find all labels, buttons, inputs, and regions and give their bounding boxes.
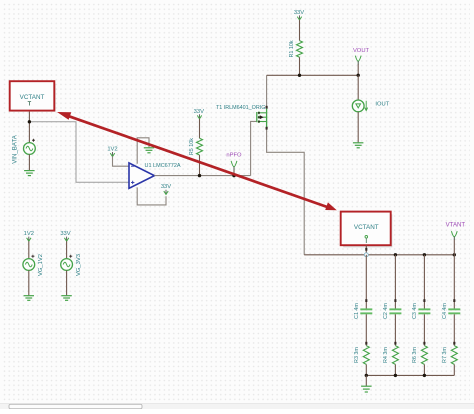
node junction VOUT — [357, 74, 360, 77]
wire VCTANT box pin to bus — [365, 245, 367, 255]
label 33V tag above R1 — [294, 10, 304, 20]
red highlight box around node VCTANT (top left) — [10, 81, 55, 111]
node junction bottom bus 2 — [394, 374, 397, 377]
svg-text:VCTANT: VCTANT — [20, 94, 45, 101]
svg-text:33V: 33V — [194, 109, 204, 115]
node pin VOUT — [355, 56, 361, 76]
wire R5 to output rail — [199, 155, 201, 176]
node junction bus branch 3 — [423, 253, 426, 256]
svg-text:33V: 33V — [294, 10, 304, 16]
wire branch 3 lower — [423, 364, 425, 375]
ground below VIN_BATA — [24, 171, 34, 176]
node junction at VCTANT — [28, 120, 31, 123]
resistor R5 — [197, 138, 203, 155]
node junction bus branch 2 — [394, 253, 397, 256]
capacitor C3 — [418, 308, 430, 314]
svg-text:U1 LMC6772A: U1 LMC6772A — [145, 163, 181, 169]
wire bottom bus — [366, 374, 454, 376]
wire 1V2 to VG_1V2 — [28, 241, 30, 258]
wire gate of T1 to output rail — [251, 121, 257, 175]
svg-text:VIN_BATA: VIN_BATA — [12, 134, 19, 163]
node junction bottom bus 3 — [423, 374, 426, 377]
wire 33V to VG_3V3 — [66, 241, 68, 258]
wire IOUT to ground — [357, 112, 359, 143]
svg-text:33V: 33V — [60, 231, 70, 237]
svg-text:T1 IRLM6401_ORIG: T1 IRLM6401_ORIG — [216, 105, 265, 111]
svg-text:C2 4m: C2 4m — [383, 303, 389, 319]
node hollow junction at VCTANT branch — [364, 253, 368, 257]
label 33V tag (VG_3V3) — [60, 231, 70, 241]
wire source to ground — [28, 154, 30, 170]
svg-text:1V2: 1V2 — [107, 146, 117, 152]
wire VCTANT box pin — [28, 111, 30, 122]
svg-text:C1 4m: C1 4m — [354, 303, 360, 319]
wire bus to ground — [365, 375, 367, 386]
svg-text:R1 10k: R1 10k — [289, 40, 295, 57]
scrollbar track — [0, 404, 474, 409]
wire branch 3 upper — [423, 255, 425, 309]
label 1V2 tag — [107, 146, 117, 156]
scrollbar thumb — [9, 404, 142, 408]
wire VG_1V2 to ground — [28, 270, 30, 295]
label node VCTANT (bottom) — [354, 224, 379, 243]
svg-text:R5 10k: R5 10k — [189, 138, 195, 155]
wire branch 2 middle — [394, 314, 396, 345]
svg-text:33V: 33V — [161, 184, 171, 190]
wire capacitor bus — [304, 254, 454, 256]
capacitor C1 — [360, 308, 372, 314]
voltage source VG_3V3 — [61, 255, 73, 271]
wire 33V to R5 — [199, 119, 201, 138]
svg-text:R7 3m: R7 3m — [442, 347, 448, 363]
wire 33V to R1 — [299, 20, 301, 40]
voltage source VG_1V2 — [23, 255, 35, 271]
ground above op-amp U1 — [144, 148, 154, 153]
current probe IOUT — [352, 100, 367, 112]
wire 1V2 to inverting input — [113, 157, 129, 167]
wire top rail — [267, 74, 359, 76]
wire branch 1 upper — [365, 255, 367, 309]
svg-text:VOUT: VOUT — [353, 48, 370, 54]
node junction R1/rail — [298, 74, 301, 77]
red arrow between VCTANT nodes — [57, 112, 337, 210]
wire branch 1 middle — [365, 314, 367, 345]
svg-text:1V2: 1V2 — [24, 231, 34, 237]
wire R1 to rail — [299, 57, 301, 75]
resistor R7 — [451, 346, 457, 365]
ground below IOUT — [353, 143, 364, 148]
wire op-amp V- pin to 33V tag — [137, 187, 166, 205]
node junction R5/output — [198, 174, 201, 177]
resistor R1 — [297, 41, 303, 58]
label 33V tag above R5 — [194, 109, 204, 119]
resistor R4 — [392, 346, 398, 365]
wire op-amp output rail — [154, 175, 250, 177]
svg-text:VG_1V2: VG_1V2 — [38, 254, 44, 276]
wire branch 4 middle — [453, 314, 455, 345]
wire T1 drain to lower bus — [267, 127, 305, 255]
transistor T1 IRLM6401_ORIG — [257, 109, 267, 127]
svg-text:C4 4m: C4 4m — [442, 303, 448, 319]
svg-text:VTANT: VTANT — [446, 222, 466, 229]
wire from node VCTANT to op-amp noninverting input — [29, 122, 128, 183]
svg-text:VG_3V3: VG_3V3 — [76, 254, 82, 276]
wire VG_3V3 to ground — [66, 270, 68, 295]
label 33V tag below op-amp — [161, 184, 171, 194]
label node VCTANT (top) — [20, 94, 45, 106]
wire T1 source up to rail — [266, 75, 268, 108]
capacitor C2 — [389, 308, 401, 314]
resistor R6 — [421, 346, 427, 365]
node junction bottom bus 1 — [365, 374, 368, 377]
wire branch 3 middle — [423, 314, 425, 345]
capacitor C4 — [448, 308, 460, 314]
svg-text:R6 3m: R6 3m — [412, 347, 418, 363]
wire branch 4 upper — [453, 255, 455, 309]
svg-text:VCTANT: VCTANT — [354, 224, 379, 231]
node junction nPFO — [232, 174, 235, 177]
label 1V2 tag (VG_1V2) — [24, 231, 34, 241]
wire op-amp V+ pin to ground — [137, 138, 149, 164]
wire rail to IOUT probe — [357, 75, 359, 100]
wire branch 2 upper — [394, 255, 396, 309]
wire branch 4 lower — [453, 364, 455, 375]
resistor R3 — [363, 346, 369, 365]
node pin VTANT — [451, 231, 457, 255]
svg-text:R3 3m: R3 3m — [354, 347, 360, 363]
wire branch 1 lower — [365, 364, 367, 375]
ground below VG_3V3 — [61, 296, 72, 301]
svg-text:R4 3m: R4 3m — [383, 347, 389, 363]
ground below capacitor bank — [361, 386, 372, 392]
wire branch 2 lower — [394, 364, 396, 375]
wire junction to source VIN_BATA — [28, 122, 30, 143]
svg-text:IOUT: IOUT — [375, 102, 389, 108]
red highlight box around node VCTANT (bottom right) — [341, 212, 392, 247]
voltage source VIN_BATA — [24, 139, 36, 155]
svg-text:C3 4m: C3 4m — [412, 303, 418, 319]
svg-text:nPFO: nPFO — [226, 153, 242, 159]
node junction bus branch 4 — [453, 253, 456, 256]
op-amp U1 LMC6772A — [129, 163, 154, 188]
node pin nPFO — [231, 161, 237, 176]
ground below VG_1V2 — [24, 296, 34, 301]
